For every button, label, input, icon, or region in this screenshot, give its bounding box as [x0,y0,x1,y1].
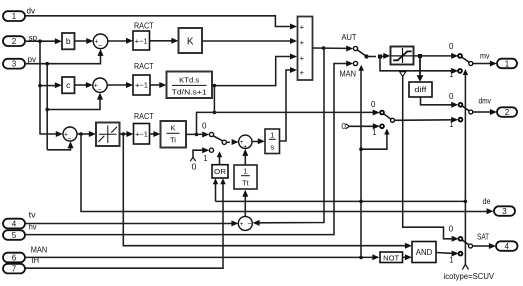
junction S3 output (de branch) [79,132,83,136]
svg-text:RACT: RACT [134,111,154,121]
wire saturation output down to diff [417,56,424,82]
input port 5 (hv) [3,223,37,240]
gain c [62,77,75,93]
svg-text:diff: diff [414,87,426,94]
label RACT (1) [134,21,154,31]
svg-text:0: 0 [449,42,454,51]
wire SW-A control from MAN line [361,129,390,150]
svg-text:MAN: MAN [340,69,357,79]
wire big sum output to AUT switch [313,46,354,52]
AND gate [412,242,436,263]
input port 3 (pv) [3,55,36,68]
switch SW1 (integrator input) [202,121,239,163]
label 0 (mv switch) [449,42,454,51]
wire sp branch to gain c [40,82,62,88]
svg-text:1: 1 [505,59,510,68]
label de [483,197,491,206]
wire pv to sum S1 minus input [25,49,104,64]
svg-text:SAT: SAT [477,232,489,242]
svg-text:icotype=SCUV: icotype=SCUV [444,272,495,281]
svg-text:2: 2 [12,37,17,46]
label 0 (SAT switch) [449,225,454,234]
svg-text:K: K [187,36,194,47]
svg-text:1: 1 [449,256,453,265]
label 1 (mv switch) [449,70,453,79]
label dmv [479,97,492,106]
svg-text:+−1: +−1 [135,36,148,45]
svg-text:0: 0 [449,225,454,234]
junction AUT/MAN switch output [378,55,382,59]
input port 2 (sp) [3,34,38,46]
svg-text:1: 1 [449,70,453,79]
svg-text:Td/N.s+1: Td/N.s+1 [172,87,207,96]
RACT block +-1 (3) [134,124,150,145]
svg-text:b: b [66,36,71,46]
constant 0 for SW-A [341,122,379,131]
wire control net horizontal [216,200,466,202]
svg-text:0: 0 [192,163,198,172]
label SAT [477,232,489,242]
svg-text:MAN: MAN [31,246,48,255]
wire 1/Tt up to sum S4 [242,149,248,165]
switch SW-A [372,111,394,138]
saturation block [391,47,414,65]
wire b to sum S1 [75,38,94,44]
gain b [62,33,75,49]
wire RACT1 to gain K [150,38,179,44]
junction control net at MAN vertical [359,200,363,204]
wire S3 to dead zone [77,131,96,137]
svg-text:1: 1 [450,120,454,129]
svg-text:+: + [300,54,305,63]
dmv switch [459,103,483,122]
wire pv branch to sum S2 minus input [47,93,103,110]
wire SAT to output port 4 [483,243,496,249]
wire sp down to sum S3 [40,41,63,137]
svg-text:−: − [97,87,101,94]
input port 1 (dv) [3,6,35,21]
label 1 (dmv switch) [450,120,454,129]
junction SW-A control on MAN vertical [359,147,363,151]
junction pv to sum S2 [45,108,49,112]
wire u line branch down to SAT switch contact 0 [403,76,459,241]
wire diff output to dmv switch contact 0 [421,97,459,108]
wire dmv to output port 2 [483,109,497,115]
wire TF output to big sum input 3 [212,54,297,86]
RACT block +-1 (1) [133,31,150,50]
svg-text:K: K [170,124,175,133]
annotation icotype=SCUV [444,272,495,281]
sum S2 [93,78,107,94]
wire IH up to OR gate input [25,178,226,268]
junction TF output branch [213,84,217,88]
sum S3 [63,127,77,143]
svg-text:6: 6 [12,253,17,262]
svg-text:4: 4 [505,242,510,251]
OR gate [212,165,228,178]
svg-text:1: 1 [204,154,208,163]
junction sp to gain c [38,84,42,88]
AUT/MAN manual switch [353,46,376,65]
wire OR output to SW1 control [217,151,222,165]
sum S4 [239,135,252,150]
wire control vertical to mv/dmv/SAT switches [463,69,468,265]
svg-text:RACT: RACT [134,21,154,31]
svg-text:NOT: NOT [383,253,399,262]
wire big sum output down to sum S5 minus input [253,48,324,226]
junction saturation output [418,54,422,58]
svg-text:5: 5 [12,231,17,240]
label RACT (3) [134,111,154,121]
diff block [409,82,432,97]
wire c to sum S2 [75,82,93,88]
svg-text:+: + [300,38,305,47]
control fork at SAT switch [462,264,468,269]
svg-text:Ti: Ti [170,136,176,145]
svg-text:AUT: AUT [342,32,357,42]
svg-text:+−1: +−1 [135,81,148,90]
sum S1 [93,34,108,50]
wire mv to output port 1 [483,61,497,67]
svg-text:mv: mv [480,52,490,61]
wire S2 to RACT2 [107,82,133,88]
svg-text:s: s [270,142,274,151]
input port 7 (IH) [3,256,39,273]
wire hv to MAN switch contact [25,61,353,235]
wire control net up into OR gate [213,178,218,201]
wire AND to SAT switch contact 1 [436,251,459,257]
wire pv down [46,64,48,150]
svg-text:2: 2 [505,108,510,117]
svg-text:pv: pv [28,55,37,64]
svg-text:tv: tv [29,211,36,220]
svg-text:3: 3 [502,207,507,216]
junction pv branch [45,62,49,66]
wire sp to gain b [25,38,62,44]
wire TF branch down to bypass line [213,86,215,113]
dead zone block [96,123,120,147]
wire RACT3 to gain K/Ti [150,131,161,137]
wire MAN control to AUT/MAN switch [359,65,364,258]
NOT gate [380,252,403,263]
svg-text:4: 4 [12,219,17,228]
svg-text:+: + [300,68,305,77]
label MAN (switch) [340,69,357,79]
junction K/Ti output branch [195,133,199,137]
svg-text:1: 1 [12,12,17,21]
wire dead zone to RACT3 [120,131,134,137]
output port 2 (dmv) [497,107,517,117]
junction MAN control branch [359,256,363,260]
wire saturation output to mv switch contact 0 [414,53,459,59]
wire K/Ti branch up to bypass line to switch SW-A [197,110,380,135]
junction big sum output branch [322,46,326,50]
constant 0 (integrator cutoff) [190,147,209,171]
wire RACT2 to derivative TF [150,82,166,88]
label mv [480,52,490,61]
svg-text:RACT: RACT [134,61,154,71]
label 1 (SAT switch) [449,256,453,265]
wire MAN to NOT gate [25,254,379,260]
svg-text:−: − [247,221,251,228]
wire tv to sum S5 [25,220,238,226]
output port 1 (mv) [497,59,517,69]
wire de to output port 3 [81,134,494,214]
svg-text:−: − [67,136,71,143]
svg-text:1: 1 [243,167,247,176]
RACT block +-1 (2) [133,75,150,95]
svg-text:de: de [483,197,491,206]
svg-text:hv: hv [29,223,37,232]
wire S4 to integrator [252,138,265,144]
wire S1 to RACT1 [108,38,133,44]
sum S5 [238,216,252,230]
branch marker hollow triangle on u line [400,72,406,77]
wire NOT to AND [403,254,412,260]
integrator 1/s [265,129,280,154]
output port 4 (SAT) [496,241,518,251]
label AUT [342,32,357,42]
gain 1/Tt [234,165,257,189]
svg-text:+−1: +−1 [135,130,148,139]
svg-text:dv: dv [27,6,36,15]
input port 6 (MAN) [3,246,47,263]
junction control net at output switch vertical [464,200,468,204]
wire switch output down to mv switch contact 1 (u line) [380,57,458,74]
wire dead zone branch to AND gate [123,134,412,249]
input port 4 (tv) [3,211,36,229]
svg-text:7: 7 [12,265,17,274]
svg-text:3: 3 [12,60,17,69]
svg-text:1: 1 [372,128,376,137]
SAT switch [459,237,483,256]
wire dv to big sum input 1 [25,16,297,30]
wire integrator output to big sum input 4 [280,67,298,141]
svg-text:Tt: Tt [242,179,250,188]
label 0 (SW-A) [371,100,376,109]
svg-text:1: 1 [270,131,274,140]
svg-text:dmv: dmv [479,97,492,106]
svg-text:0: 0 [371,100,376,109]
svg-text:0: 0 [202,121,207,130]
svg-text:+: + [300,23,305,32]
big sum block [298,17,313,81]
junction sp branch [38,39,42,43]
junction TF branch on bypass line [213,111,217,115]
svg-text:OR: OR [214,167,227,176]
svg-text:IH: IH [32,256,40,265]
svg-text:−: − [98,43,102,50]
svg-text:AND: AND [416,248,433,257]
output port 3 (de) [494,206,515,216]
gain K [179,28,203,53]
svg-text:+: + [240,221,244,228]
svg-text:0: 0 [341,122,346,131]
wire SW-A output to dmv switch contact 1 [395,117,459,123]
mv switch [458,54,483,73]
svg-text:KTd.s: KTd.s [179,76,199,85]
wire switch output to saturation [380,53,390,59]
label RACT (2) [134,61,154,71]
svg-text:0: 0 [449,92,454,101]
wire K to big sum input 2 [202,38,297,44]
gain K/Ti [161,121,187,148]
wire sum S5 up to 1/Tt [242,190,248,217]
label 0 (dmv switch) [449,92,454,101]
derivative transfer function KTd.s/(Td/N.s+1) [167,72,213,99]
svg-text:c: c [66,80,71,90]
junction dead zone output branch [122,132,126,136]
wire K/Ti to switch SW1 contact 0 [186,132,209,138]
wire pv to sum S3 minus input [47,141,73,150]
